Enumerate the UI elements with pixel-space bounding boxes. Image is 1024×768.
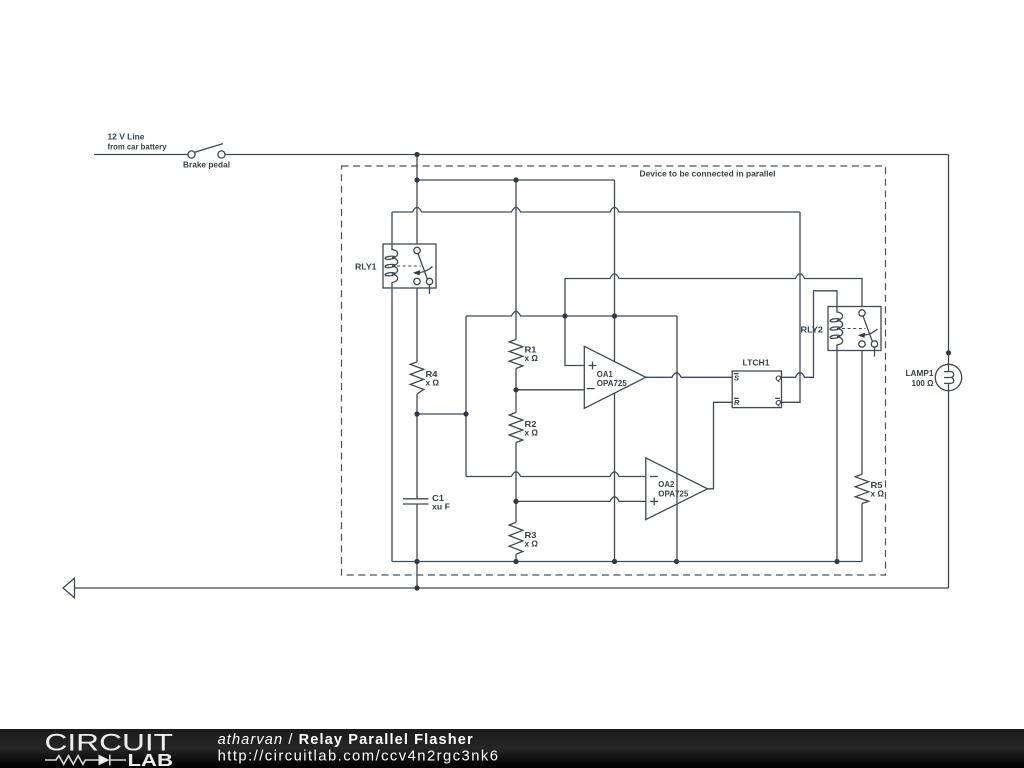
svg-text:x Ω: x Ω [525, 539, 539, 549]
op-amp OA2 [646, 458, 708, 520]
svg-text:S: S [734, 373, 739, 382]
wire: x565 riser y278 to OA1 plus input [565, 279, 584, 366]
resistor R2 [509, 413, 523, 443]
svg-text:RLY1: RLY1 [355, 261, 377, 271]
wire: vertical x417 from top rail into RLY1 switch [416, 155, 418, 248]
lamp LAMP1 filament [944, 365, 954, 391]
wire: x516 between R1 and R2 [515, 369, 517, 413]
wire: bottom return line [75, 587, 949, 589]
wire: LAMP1 bottom down to return line [948, 391, 950, 588]
wire: right vertical down to LAMP1 [948, 155, 950, 365]
wire: LTCH1 Qbar output up x800 to y212 [782, 212, 801, 402]
op-amp OA1 [584, 346, 646, 408]
node: junction dots [414, 152, 951, 591]
wire: vertical x614 from y180 corner to bottom rail [614, 180, 616, 562]
relay RLY2 [828, 307, 881, 357]
svg-text:Brake pedal: Brake pedal [183, 159, 230, 169]
op-amp OA2 plus sign [650, 498, 658, 506]
svg-text:OPA725: OPA725 [597, 378, 627, 388]
wire: RLY1 coil bottom to bottom rail [391, 288, 393, 562]
latch LTCH1 [732, 371, 781, 408]
wire: vertical x466 [465, 316, 467, 477]
wire: x417 RLY1 switch to R4 [416, 285, 418, 362]
wire: horizontal y212 with hops over x417 x516 x614 [392, 207, 800, 212]
relay RLY1 [383, 244, 436, 294]
svg-text:R: R [734, 398, 740, 407]
wire: horizontal y316 with hop over x516 [466, 311, 677, 316]
svg-text:x Ω: x Ω [525, 428, 539, 438]
svg-text:x Ω: x Ω [426, 378, 440, 388]
wire: x516 between R2 and R3 [515, 443, 517, 523]
svg-text:LAMP1: LAMP1 [906, 368, 934, 378]
wire: RLY1 coil top from y212 [391, 212, 393, 244]
wire: LTCH1 Q output with hop over x800 to RLY2 coil [782, 291, 838, 378]
svg-text:Q: Q [775, 398, 781, 407]
resistor R1 [509, 340, 523, 369]
svg-text:atharvan / Relay Parallel Flas: atharvan / Relay Parallel Flasher [218, 732, 474, 748]
resistor R3 [509, 522, 523, 554]
lamp LAMP1 [935, 364, 961, 390]
wire: horizontal y180 node [417, 179, 615, 181]
svg-text:LTCH1: LTCH1 [743, 358, 770, 368]
footer bar [0, 729, 1024, 768]
op-amp OA1 minus sign [587, 388, 595, 390]
svg-text:xu F: xu F [432, 502, 450, 512]
wire: x417 C1 down through rail to return line [416, 504, 418, 588]
wire: OA1 minus input from x516 [516, 389, 584, 391]
wire: 12V top rail to right edge [225, 154, 948, 156]
op-amp OA1 plus sign [589, 362, 597, 370]
wire: horizontal y278 with hops over x614 x800, down to RLY2 switch [565, 274, 862, 310]
wire: x516 R3 to bottom rail [515, 554, 517, 561]
svg-text:x Ω: x Ω [871, 489, 885, 499]
svg-text:100 Ω: 100 Ω [912, 378, 934, 388]
CircuitLab logo and footer text [0, 729, 1024, 768]
wire: OA2 minus input from x466 with hops over x516 x614 [466, 472, 646, 477]
dashed enclosure: Device to be connected in parallel [342, 166, 886, 575]
svg-text:Q: Q [775, 373, 781, 382]
wire: x417 R4 to C1 [416, 394, 418, 499]
resistor R4 [410, 362, 424, 394]
capacitor C1 [403, 499, 429, 504]
svg-text:OPA725: OPA725 [658, 489, 688, 499]
svg-text:from car battery: from car battery [108, 142, 167, 152]
wire: horizontal y414 R4 node to x466 [417, 413, 466, 415]
wire: OA1 output to LTCH1 S with hop over x676 [646, 373, 732, 378]
svg-text:x Ω: x Ω [525, 353, 539, 363]
switch SW brake pedal lever [194, 144, 223, 153]
svg-text:12 V Line: 12 V Line [108, 132, 145, 142]
resistor R5 [855, 474, 869, 503]
wire: RLY2 coil bottom to bottom rail [836, 351, 838, 562]
arrow: return line terminal [63, 578, 75, 598]
svg-text:LAB: LAB [128, 750, 174, 768]
svg-text:Device to be connected in para: Device to be connected in parallel [640, 168, 776, 178]
wire: OA2 output up to LTCH1 R [708, 402, 733, 489]
wire: RLY2 switch down to R5 [861, 347, 863, 474]
svg-text:http://circuitlab.com/ccv4n2rg: http://circuitlab.com/ccv4n2rgc3nk6 [218, 748, 500, 764]
wire: R5 to bottom rail corner [861, 504, 863, 562]
wire: OA2 plus input from x516 with hop over x614 [516, 497, 646, 502]
wire: vertical x676 from y316 through OA2 to bottom rail [676, 316, 678, 562]
wire: 12V top rail left of brake pedal [94, 154, 188, 156]
wire: vertical x516 from y180 to R1 [515, 180, 517, 340]
op-amp OA2 minus sign [650, 476, 658, 478]
svg-text:RLY2: RLY2 [801, 325, 824, 335]
switch SW brake pedal terminals [188, 151, 195, 158]
wire: bottom rail inside box [392, 561, 862, 563]
